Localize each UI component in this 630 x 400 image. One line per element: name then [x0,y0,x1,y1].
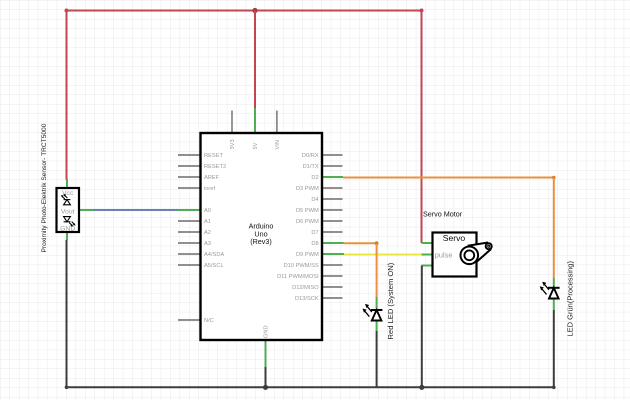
wire: green pin stub sensor GND [66,232,68,240]
node: junction Arduino GND to bus [263,385,268,390]
label: Arduino top pin names 3V3 5V VIN [230,139,281,149]
svg-text:D12/MISO: D12/MISO [292,285,319,291]
svg-text:pulse: pulse [435,250,453,259]
svg-text:LED Grün(Processing): LED Grün(Processing) [565,261,574,337]
svg-text:Red LED (System ON): Red LED (System ON) [386,262,395,339]
svg-text:D5 PWM: D5 PWM [296,208,319,214]
wire: green stub below red LED [376,321,378,332]
wire: green pin stub servo GND [422,265,433,267]
svg-text:D6 PWM: D6 PWM [296,219,319,225]
label: Arduino right pin names [277,153,319,302]
svg-text:Proximity Photo-Elektrik Senso: Proximity Photo-Elektrik Sensor- TRCT500… [41,123,48,252]
LED D_red: Red LED (System ON) [371,309,383,311]
wire: red drop to Arduino 5V [254,11,256,109]
wire: green pin stub Arduino GND [265,340,267,367]
svg-text:D4: D4 [311,197,318,203]
svg-text:A4/SDA: A4/SDA [204,252,224,258]
wire: orange D8 to red LED (horizontal) [344,242,377,244]
svg-text:D8: D8 [311,241,318,247]
op: Arduino pin stubs right (unconnected) [322,155,343,298]
svg-text:D3 PWM: D3 PWM [296,186,319,192]
svg-text:5V: 5V [253,142,259,149]
label: Arduino Uno (Rev3) [249,222,274,247]
svg-text:Servo Motor: Servo Motor [423,210,463,219]
LED D_green: LED Gruen (Processing) [548,287,560,289]
wire: green pin stub Arduino A0 [178,209,201,211]
svg-text:(Rev3): (Rev3) [250,237,272,246]
svg-text:A3: A3 [204,241,211,247]
op: Arduino pin stubs top 3V3 and VIN (unconnected) [232,111,277,133]
LED D_red light arrows [365,307,372,317]
wire: Arduino GND drop (dark) [265,367,267,387]
wire: green pin stub sensor Vcc [66,179,68,188]
node: junction servo GND to bus [419,385,424,390]
svg-text:D0/RX: D0/RX [302,153,319,159]
node: junction red bus to Arduino 5V [252,8,257,13]
svg-text:D11 PWM/MOSI: D11 PWM/MOSI [277,274,319,280]
svg-text:Servo: Servo [443,233,466,243]
node: bend at top-left of red bus [65,9,69,13]
wire: orange D2 to green LED (horizontal) [343,177,554,179]
motor M1: servo body [433,233,477,277]
node: bend orange at red LED column [375,241,379,245]
wire: red drop to servo V+ [421,11,423,244]
node: bend at top-right of red bus [420,9,424,13]
wire: green pin stub servo pulse [422,254,433,256]
svg-text:D2: D2 [311,175,318,181]
wire: green stub above red LED [376,297,378,310]
node: bend bottom-left [65,386,69,390]
wire: yellow D9 to servo pulse [344,254,422,256]
transistor: sensor photo receiver symbol [64,217,75,226]
motor M1: servo horn [461,243,492,265]
svg-text:A2: A2 [204,230,211,236]
node: bend orange at top of green LED [552,176,556,180]
svg-text:AREF: AREF [204,175,220,181]
wire: +5V top bus (red horizontal) [67,10,422,12]
wire: green pin stub servo V+ [422,242,433,244]
wire: green pin stub D9 [322,253,344,255]
svg-text:GND: GND [264,325,270,338]
svg-text:VIN: VIN [275,140,281,149]
svg-text:Vout: Vout [61,209,75,216]
wire: green pin stub D2 [322,176,343,178]
svg-text:Vcc: Vcc [62,190,74,197]
svg-text:3V3: 3V3 [230,139,236,149]
op: Arduino pin stubs left (unconnected) [178,155,201,320]
wire: orange drop to green LED anode [553,178,555,278]
wire: green pin stub Arduino 5V [254,108,256,133]
svg-text:D9 PWM: D9 PWM [296,252,319,258]
wire: ground bottom bus (dark horizontal) [66,386,554,388]
wire: sensor Vout green stub [79,209,93,211]
svg-text:A1: A1 [204,219,211,225]
svg-text:RESET2: RESET2 [204,164,226,170]
svg-text:N/C: N/C [204,318,214,324]
LED D_green light arrows [542,284,549,294]
wire: green pin stub D8 [322,242,344,244]
svg-text:D10 PWM/SS: D10 PWM/SS [284,263,319,269]
wire: red LED cathode drop (dark) [376,331,378,387]
op-amp U1: Arduino Uno (Rev3) body [201,133,323,340]
svg-text:ioref: ioref [204,186,215,192]
wire: blue signal sensor Vout to A0 [93,209,178,211]
svg-text:D7: D7 [311,230,318,236]
wire: red drop to sensor Vcc [66,11,68,181]
wire: orange drop to red LED anode [376,243,378,297]
svg-text:D1/TX: D1/TX [303,164,319,170]
diode: sensor IR emitter symbol [62,195,71,205]
svg-text:A5/SCL: A5/SCL [204,263,224,269]
wire: sensor GND drop (dark) [66,240,68,387]
wire: servo GND drop (dark) [421,266,423,388]
svg-text:GND: GND [60,226,75,233]
svg-text:D13/SCK: D13/SCK [295,296,319,302]
wire: green LED cathode drop (dark) [553,310,555,387]
sensor U2: TRCT5000 proximity sensor body [57,188,80,232]
node: bend bottom-right [552,386,556,390]
wire: green stub above green LED [553,278,555,289]
label: Arduino left pin names [204,153,226,324]
svg-text:RESET: RESET [204,153,223,159]
wire: green stub below green LED [553,299,555,311]
svg-text:A0: A0 [204,208,211,214]
